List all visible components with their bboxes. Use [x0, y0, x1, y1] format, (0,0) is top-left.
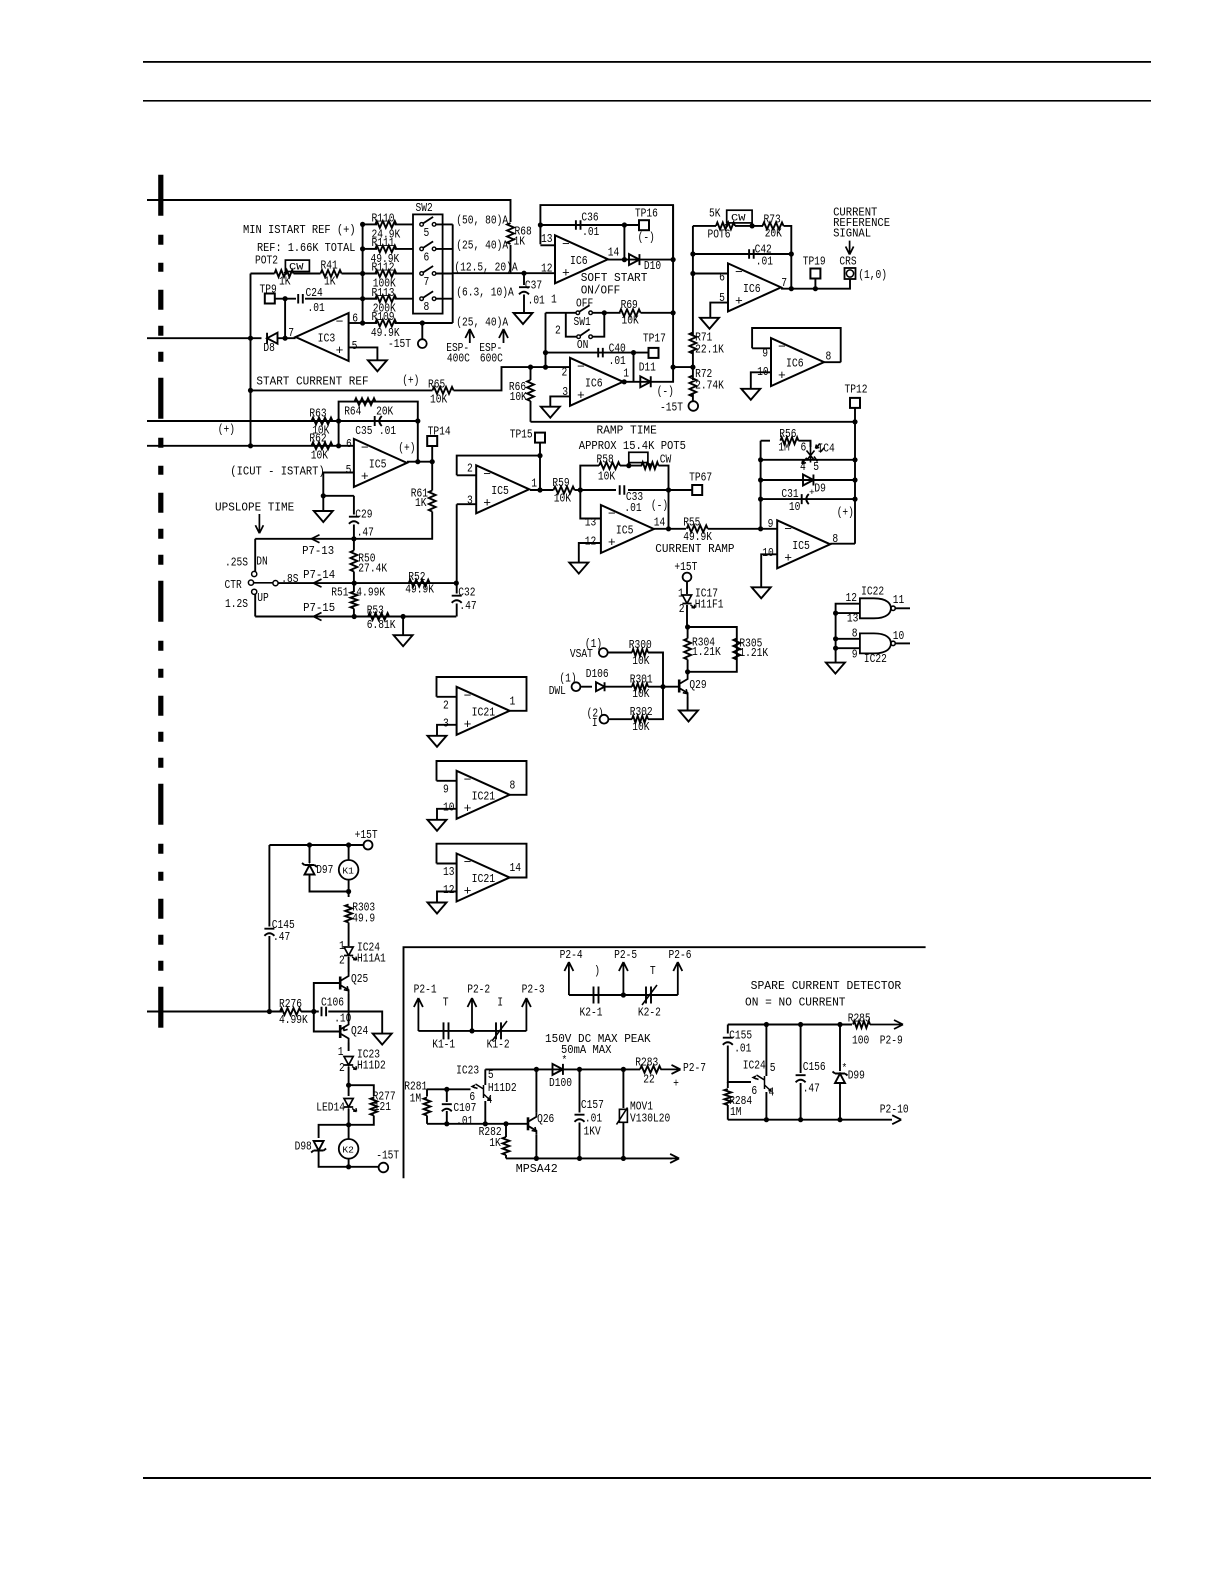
svg-text:IC22: IC22	[861, 585, 884, 599]
svg-text:IC21: IC21	[472, 873, 496, 886]
junction TP12 rail r56row	[852, 457, 857, 462]
junction SW1 right common	[602, 310, 607, 315]
resistor R281	[424, 1098, 431, 1116]
resistor R58	[599, 462, 620, 469]
junction R282 top	[503, 1121, 508, 1126]
svg-text:C156: C156	[803, 1060, 826, 1074]
wire IC23 to LED14	[348, 1067, 350, 1097]
svg-text:K1-2: K1-2	[487, 1038, 510, 1052]
wire R66 bottom	[530, 401, 532, 422]
op-amp IC21 B feedback box	[437, 761, 527, 795]
switch SW1 ON	[577, 335, 581, 339]
wire IC6r pin5 to ground	[710, 303, 728, 318]
svg-text:.01: .01	[308, 301, 325, 315]
op-amp IC21 C feedback box	[437, 844, 527, 878]
relay contact K1-2	[496, 1022, 501, 1039]
svg-text:R65: R65	[428, 378, 445, 392]
wire R72 to -15T	[692, 393, 694, 401]
wire IC22b in2	[836, 647, 860, 649]
switch SW2 pole 7	[420, 272, 424, 276]
op-amp IC3	[296, 313, 349, 361]
wire R110 to SW2	[395, 223, 414, 225]
svg-text:P2-3: P2-3	[522, 982, 545, 996]
svg-text:1: 1	[338, 1045, 344, 1059]
arrow rail right	[670, 1154, 679, 1163]
junction C40 right node	[631, 350, 636, 355]
resistor R65	[433, 387, 454, 394]
svg-text:P2-6: P2-6	[669, 948, 692, 962]
arrow current reference signal	[846, 241, 854, 255]
wire C35 row	[339, 420, 418, 422]
junction C107 top	[444, 1087, 449, 1092]
wire left feedback rail	[760, 441, 762, 529]
junction lrail d9	[758, 477, 763, 482]
svg-text:IC3: IC3	[318, 333, 336, 346]
opto-coupler IC23 LED	[344, 1057, 353, 1066]
wire Q25 emitter to Q24	[348, 994, 350, 1021]
wire R51 lead2	[353, 609, 355, 617]
junction C107 bottom	[444, 1121, 449, 1126]
svg-text:6: 6	[751, 1084, 757, 1098]
svg-text:−: −	[562, 237, 570, 252]
test point TP12	[850, 398, 860, 408]
resistor R304	[684, 639, 691, 660]
svg-text:2: 2	[555, 324, 561, 338]
svg-text:−: −	[464, 855, 472, 870]
junction R112 row / ladder rail	[360, 271, 365, 276]
svg-text:R300: R300	[629, 638, 652, 652]
wire K1 top	[348, 845, 350, 860]
wire TP15 rail	[539, 443, 541, 490]
wire R41 to ladder rail and R112	[342, 273, 378, 275]
junction ladder rail R111 row	[360, 246, 365, 251]
wire IC6t output row	[608, 259, 673, 261]
junction R304 box top	[685, 624, 690, 629]
svg-text:5K: 5K	[709, 207, 721, 221]
svg-text:10K: 10K	[430, 393, 448, 407]
svg-text:C31: C31	[781, 487, 798, 501]
wire C107 leads	[446, 1089, 448, 1102]
switch SW2 pole 5	[420, 223, 424, 227]
wire upslope sw vert bottom	[254, 594, 256, 616]
svg-text:P2-10: P2-10	[880, 1103, 909, 1117]
wire P7-15 gnd stub	[402, 617, 404, 636]
svg-text:(6.3, 10)A: (6.3, 10)A	[456, 285, 514, 299]
junction K1 branch	[346, 842, 351, 847]
wire C40 row	[546, 352, 649, 354]
svg-text:P7-14: P7-14	[303, 568, 335, 582]
wire IC5r output	[830, 543, 855, 545]
svg-text:+15T: +15T	[355, 828, 378, 842]
wire P7-14 row	[278, 582, 456, 584]
svg-text:10: 10	[789, 500, 801, 514]
resistor R112	[375, 270, 396, 277]
wire SW1 left rail	[545, 313, 547, 367]
op-amp IC21 B	[457, 771, 510, 819]
wire K1 contact row	[418, 1030, 526, 1032]
wire R68 to row7	[510, 245, 512, 273]
svg-text:+: +	[778, 368, 786, 383]
wire R61 top	[431, 462, 433, 491]
svg-text:D97: D97	[316, 863, 333, 877]
svg-text:5: 5	[352, 339, 358, 353]
svg-text:20K: 20K	[765, 227, 783, 241]
svg-text:10K: 10K	[510, 390, 528, 404]
wire pin5 gnd stub	[322, 496, 324, 511]
svg-text:TP15: TP15	[510, 428, 533, 442]
junction emitter bottom	[483, 1121, 488, 1126]
resistor R285	[853, 1021, 870, 1028]
wire VSAT to R300	[608, 652, 632, 654]
svg-text:10K: 10K	[632, 687, 650, 701]
junction C35 right rail	[415, 418, 420, 423]
wire Q26 collector	[535, 1069, 537, 1112]
wire R63 row	[147, 420, 339, 422]
svg-text:1M: 1M	[730, 1105, 742, 1119]
wire IC17 to box	[686, 605, 688, 627]
ground P7-15	[394, 635, 413, 646]
svg-text:R113: R113	[372, 286, 395, 300]
svg-text:Q25: Q25	[351, 972, 368, 986]
svg-text:10K: 10K	[622, 314, 640, 328]
junction R62 row box rail	[336, 443, 341, 448]
svg-text:4.99K: 4.99K	[356, 586, 385, 600]
svg-text:−: −	[735, 265, 743, 280]
svg-text:R64: R64	[344, 405, 361, 419]
svg-text:.01: .01	[624, 501, 641, 515]
svg-text:P2-7: P2-7	[683, 1061, 706, 1075]
svg-text:1KV: 1KV	[584, 1125, 602, 1139]
wire stub to -15T	[421, 323, 423, 339]
resistor R71	[690, 333, 697, 354]
opto-coupler IC17 LED	[682, 595, 691, 604]
junction TP19 stub	[813, 286, 818, 291]
opto transistor IC23 rx	[472, 1084, 490, 1100]
resistor R284	[724, 1089, 731, 1105]
wire IC21A in2gnd	[437, 725, 457, 736]
svg-text:.10: .10	[334, 1012, 351, 1026]
resistor R111	[375, 246, 396, 253]
svg-text:22.1K: 22.1K	[695, 343, 724, 357]
svg-text:*: *	[562, 1055, 568, 1067]
junction IC6l output tip	[622, 379, 627, 384]
svg-text:R59: R59	[552, 476, 569, 490]
wire K2 to -15T	[349, 1166, 379, 1168]
wire R281 bottom	[426, 1116, 428, 1124]
svg-text:IC6: IC6	[585, 377, 603, 390]
svg-text:49.9K: 49.9K	[405, 583, 434, 597]
switch SW2 pole 8	[420, 297, 424, 301]
svg-text:−: −	[608, 507, 616, 522]
wire IC21A in1	[437, 696, 457, 698]
svg-text:+: +	[577, 388, 585, 403]
wire C37 to ground	[523, 295, 525, 314]
arrow P2-1	[414, 998, 423, 1031]
svg-text:+: +	[464, 884, 472, 899]
resistor R56	[780, 437, 798, 444]
svg-text:P2-9: P2-9	[880, 1034, 903, 1048]
page top rule 1	[143, 61, 1151, 63]
potentiometer POT6	[716, 223, 735, 230]
wire R276 to C106	[301, 1011, 319, 1013]
wire IC21C in2gnd	[437, 892, 457, 903]
svg-text:D106: D106	[586, 667, 609, 681]
capacitor C107	[442, 1104, 452, 1111]
resistor R68	[507, 223, 514, 244]
capacitor C31	[802, 494, 809, 504]
ground IC21 C	[428, 903, 447, 914]
svg-text:R111: R111	[372, 236, 395, 250]
diode D98	[311, 1141, 326, 1153]
wire IC5a pin5 path	[323, 473, 354, 496]
test point TP67	[692, 485, 702, 495]
junction R71R72 rail	[690, 365, 695, 370]
junction spare top c156	[798, 1022, 803, 1027]
svg-text:1K: 1K	[514, 235, 526, 249]
wire R61 bottom	[354, 512, 432, 539]
junction lrail c31	[758, 497, 763, 502]
svg-text:D8: D8	[263, 341, 275, 355]
test point TP16	[639, 220, 649, 230]
svg-text:SW2: SW2	[416, 201, 433, 215]
resistor R51	[351, 592, 358, 609]
svg-text:IC23: IC23	[456, 1064, 479, 1078]
resistor R59	[554, 487, 575, 494]
wire IC5m pin2	[457, 474, 477, 476]
wire K2 contact row	[569, 994, 678, 996]
wire pot to R41	[294, 273, 321, 275]
junction pin5 ground node	[321, 493, 326, 498]
junction spare bottom ic24	[764, 1117, 769, 1122]
relay coil K1	[339, 860, 359, 880]
svg-text:D99: D99	[848, 1069, 865, 1083]
svg-text:2: 2	[467, 462, 473, 476]
resistor R302	[632, 716, 648, 723]
wire P7-15 row	[255, 616, 456, 618]
wire IC24rx emitter	[765, 1092, 767, 1120]
junction output R73 rail	[789, 286, 794, 291]
svg-text:R69: R69	[621, 298, 638, 312]
svg-text:13: 13	[541, 232, 553, 246]
wire TP12 rail	[854, 408, 856, 544]
svg-text:27.4K: 27.4K	[358, 562, 387, 576]
svg-text:10: 10	[443, 800, 455, 814]
svg-text:+: +	[483, 495, 491, 510]
op-amp IC6b feedback box	[752, 328, 841, 362]
wire C145 branch	[268, 845, 270, 927]
op-amp IC21 A feedback box	[437, 677, 527, 711]
wire C29 branch	[353, 496, 355, 515]
svg-text:P7-15: P7-15	[303, 601, 335, 615]
resistor R41	[321, 270, 342, 277]
resistor R52	[409, 580, 430, 587]
svg-text:3: 3	[443, 716, 449, 730]
svg-text:VSAT: VSAT	[570, 647, 593, 661]
test point TP9	[265, 294, 275, 304]
svg-text:49.9: 49.9	[352, 912, 375, 926]
diode D8	[267, 333, 277, 344]
svg-text:7: 7	[424, 275, 430, 289]
nand gate IC22 B	[860, 633, 891, 653]
junction LED14 K2 D98	[346, 1122, 351, 1127]
svg-text:100: 100	[852, 1034, 869, 1048]
relay contact K2-1	[594, 987, 599, 1004]
svg-text:50mA MAX: 50mA MAX	[561, 1043, 611, 1057]
svg-text:R53: R53	[367, 603, 384, 617]
svg-text:TP14: TP14	[428, 425, 451, 439]
svg-text:1K: 1K	[415, 496, 427, 510]
wire IC5n pin12 to gnd	[579, 543, 601, 563]
svg-text:+15T: +15T	[674, 560, 697, 574]
wire row2 IC4	[761, 459, 855, 461]
svg-text:1: 1	[531, 477, 537, 491]
wire top net to R68	[147, 200, 511, 222]
svg-text:R55: R55	[683, 516, 700, 530]
svg-text:C157: C157	[581, 1098, 604, 1112]
op-amp IC21 C	[457, 854, 510, 902]
svg-text:.01: .01	[528, 294, 545, 308]
wire ladder row R111	[363, 248, 377, 250]
junction R58 pot5	[626, 463, 631, 468]
wire R277 branch bottom	[349, 1116, 374, 1125]
svg-text:2: 2	[443, 698, 449, 712]
svg-text:IC6: IC6	[786, 358, 804, 371]
junction C42 left rail	[690, 251, 695, 256]
svg-text:LED14: LED14	[316, 1100, 345, 1114]
svg-text:10K: 10K	[632, 720, 650, 734]
svg-text:−: −	[778, 340, 786, 355]
svg-text:5: 5	[346, 463, 352, 477]
svg-text:2: 2	[339, 1061, 345, 1075]
svg-text:5: 5	[770, 1061, 776, 1075]
svg-text:1K: 1K	[324, 275, 336, 289]
capacitor C156	[796, 1075, 806, 1082]
junction output right rail	[415, 459, 420, 464]
svg-text:(25, 40)A: (25, 40)A	[456, 239, 508, 253]
svg-text:(+): (+)	[837, 506, 854, 520]
wire IC22a in1	[836, 604, 860, 663]
svg-text:P2-1: P2-1	[414, 982, 437, 996]
svg-text:1: 1	[510, 694, 516, 708]
wire R111 to SW2	[395, 248, 414, 250]
svg-text:IC4: IC4	[818, 442, 835, 456]
wire IC5r pin10 gnd	[761, 554, 777, 587]
capacitor C157	[575, 1115, 585, 1122]
capacitor C106	[322, 1007, 327, 1017]
wire R65 to pin2 node	[454, 367, 571, 390]
wire R284 bottom	[727, 1105, 729, 1120]
wire C24 junction down to pin7	[284, 299, 286, 339]
svg-text:12: 12	[443, 883, 455, 897]
capacitor C40	[598, 348, 603, 358]
svg-text:14: 14	[608, 245, 620, 259]
connector CRS square	[845, 268, 856, 279]
wire R69 to right rail	[641, 312, 674, 314]
junction R277 top	[346, 1083, 351, 1088]
wire MPSA42 rail	[506, 1157, 672, 1159]
wire IC6t pin12 row	[524, 272, 555, 274]
junction DWL node	[660, 684, 665, 689]
svg-text:UPSLOPE TIME: UPSLOPE TIME	[215, 501, 294, 515]
capacitor C35	[375, 416, 382, 426]
svg-text:+: +	[735, 293, 743, 308]
svg-text:2: 2	[339, 954, 345, 968]
op-amp IC6 bottom-right	[771, 338, 824, 386]
diode D9	[803, 475, 813, 486]
arrow P2-5	[619, 962, 628, 995]
svg-text:K2-1: K2-1	[580, 1006, 603, 1020]
wire SW2 contact 7 to common	[436, 273, 453, 275]
svg-text:P2-5: P2-5	[614, 948, 637, 962]
svg-text:P7-13: P7-13	[302, 544, 334, 558]
svg-text:2.74K: 2.74K	[695, 379, 724, 393]
wire C106 to ground	[328, 1012, 382, 1034]
junction C37 tap	[521, 271, 526, 276]
wire SW1 row1 right	[592, 312, 620, 314]
pot POT6 CW box	[727, 210, 752, 223]
svg-text:1: 1	[339, 939, 345, 953]
wire SW2 contact 5 to common	[436, 223, 453, 225]
wire LED14 to K2	[348, 1109, 350, 1140]
junction TP12 rail d9row	[852, 477, 857, 482]
junction TP12 rail row	[852, 419, 857, 424]
svg-text:+: +	[784, 550, 792, 565]
resistor R72	[690, 376, 697, 397]
transistor Q29	[678, 680, 681, 693]
svg-text:+: +	[464, 717, 472, 732]
svg-text:MPSA42: MPSA42	[516, 1162, 558, 1176]
wire IC23 emitter down	[484, 1101, 486, 1124]
capacitor C36	[576, 220, 581, 230]
wire R50 leads	[353, 539, 355, 551]
svg-text:10: 10	[762, 546, 774, 560]
svg-text:D98: D98	[295, 1140, 312, 1154]
resistor R110	[375, 221, 396, 228]
svg-text:-15T: -15T	[388, 337, 411, 351]
wire D99 bottom	[839, 1084, 841, 1120]
svg-text:IC24: IC24	[743, 1059, 766, 1073]
svg-text:(50, 80)A: (50, 80)A	[456, 214, 508, 228]
svg-text:8: 8	[424, 300, 430, 314]
pot POT2 CW box	[285, 260, 309, 271]
op-amp IC5 middle	[476, 465, 529, 513]
wire rail link to R71R72	[673, 366, 693, 368]
svg-text:H11D2: H11D2	[357, 1058, 386, 1072]
wire R277 branch top	[349, 1085, 374, 1096]
wire C107 lead2	[446, 1111, 448, 1124]
wire left to D8	[147, 337, 262, 339]
arrow P2-9	[870, 1020, 903, 1029]
potentiometer POT5	[642, 462, 659, 469]
junction C40 left rail	[543, 350, 548, 355]
arrow P2-2	[468, 998, 477, 1031]
junction TP15 feedback	[537, 453, 542, 458]
wire SW1 row1 left	[546, 312, 577, 314]
svg-text:POT2: POT2	[255, 254, 278, 268]
wire IC6r output row	[781, 279, 850, 289]
wire R73 to down rail	[784, 226, 792, 289]
pot POT5 box	[629, 452, 648, 462]
arrow P7-14	[314, 579, 322, 587]
svg-text:1: 1	[678, 587, 684, 601]
svg-text:.01: .01	[734, 1042, 751, 1056]
wire spare left vert	[727, 1025, 729, 1034]
wire R58 row	[580, 466, 599, 490]
resistor R303	[345, 905, 352, 923]
svg-text:K1: K1	[342, 866, 354, 877]
wire R303 to IC24	[348, 923, 350, 947]
svg-text:6: 6	[719, 271, 725, 285]
